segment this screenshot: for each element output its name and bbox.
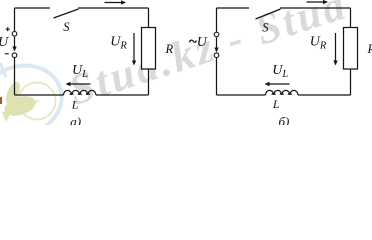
voltage label U_L (right) bbox=[272, 63, 288, 80]
current direction arrow i (top) bbox=[105, 0, 127, 4]
wire bottom rail right segment (right circuit) bbox=[298, 94, 351, 96]
wire bottom rail left segment (right circuit) bbox=[217, 94, 266, 96]
voltage arrow U_R (left, pointing down) bbox=[132, 33, 136, 66]
wire bottom rail right segment bbox=[96, 94, 149, 96]
svg-text:L: L bbox=[272, 97, 280, 111]
AC source label ~U bbox=[189, 35, 208, 50]
wire bottom rail left segment bbox=[15, 94, 64, 96]
inductor L coil (left circuit) bbox=[64, 90, 96, 95]
source upper terminal node (right circuit) bbox=[214, 32, 219, 37]
wire from resistor R bottom down to bottom rail (right circuit) bbox=[350, 69, 352, 95]
resistor R value label (right, clipped by edge) bbox=[367, 42, 372, 56]
wire top-left vertical (source + to switch) bbox=[14, 8, 16, 32]
svg-text:L: L bbox=[71, 98, 79, 112]
svg-text:R: R bbox=[367, 42, 372, 56]
voltage arrow U_R (right, pointing down) bbox=[333, 33, 337, 66]
wire top from switch to resistor branch bbox=[78, 7, 149, 9]
wire right vertical down to resistor R top bbox=[148, 8, 150, 28]
source lower terminal node (right circuit) bbox=[214, 53, 219, 58]
wire left vertical from source lower terminal to bottom rail (right circuit) bbox=[216, 58, 218, 96]
resistor R value label bbox=[165, 42, 174, 56]
svg-text:S: S bbox=[63, 20, 70, 34]
inductor L coil (right circuit) bbox=[266, 90, 298, 95]
inductor L label (right circuit) bbox=[272, 97, 280, 111]
inductor L label bbox=[71, 98, 79, 112]
source upper terminal node (+) bbox=[12, 32, 17, 37]
svg-text:б): б) bbox=[279, 114, 290, 125]
resistor R (left circuit) bbox=[142, 28, 156, 70]
caption b) bbox=[279, 114, 290, 129]
source voltage arrow (down, between terminals) bbox=[12, 37, 16, 52]
resistor R (right circuit) bbox=[344, 28, 358, 70]
current direction arrow i (top, right circuit) bbox=[307, 0, 329, 4]
source voltage label U bbox=[0, 35, 9, 50]
switch S label bbox=[63, 20, 70, 34]
wire right vertical down to resistor R top (right circuit) bbox=[350, 8, 352, 28]
switch S blade (open, right circuit) bbox=[256, 9, 281, 19]
svg-text:а): а) bbox=[70, 114, 81, 125]
svg-text:U: U bbox=[197, 35, 208, 50]
wire top from corner to switch S left contact bbox=[15, 7, 51, 9]
wire left vertical from source - terminal to bottom rail bbox=[14, 58, 16, 96]
wire top from corner to switch S left contact (right circuit) bbox=[217, 7, 250, 9]
plus sign bbox=[6, 27, 10, 31]
source lower terminal node (-) bbox=[12, 53, 17, 58]
source voltage arrow (down, right circuit) bbox=[214, 38, 218, 53]
voltage label U_R (right) bbox=[310, 34, 327, 51]
svg-text:S: S bbox=[262, 21, 269, 35]
watermark group (background, decorative) bbox=[0, 0, 353, 143]
svg-text:R: R bbox=[165, 42, 174, 56]
svg-text:U: U bbox=[0, 35, 9, 50]
switch S blade (open) bbox=[54, 9, 79, 18]
wire top-left vertical (source to switch), right circuit bbox=[216, 8, 218, 32]
voltage label U_R (left) bbox=[110, 34, 127, 51]
caption a) bbox=[70, 114, 81, 129]
wire from resistor R bottom down to bottom rail bbox=[148, 69, 150, 95]
voltage label U_L (left) bbox=[72, 63, 88, 80]
minus sign bbox=[5, 53, 9, 55]
voltage arrow U_L (right, pointing left) bbox=[265, 82, 290, 86]
wire top from switch to resistor branch (right circuit) bbox=[280, 7, 351, 9]
voltage arrow U_L (left, pointing left) bbox=[66, 82, 91, 86]
switch S label (right circuit) bbox=[262, 21, 269, 35]
